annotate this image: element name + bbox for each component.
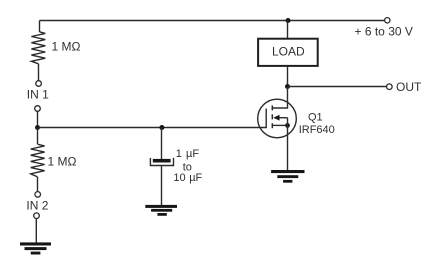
Q1 gate bar xyxy=(265,109,267,129)
wire: gate rail from divider to MOSFET xyxy=(38,127,267,129)
Q1 source connection xyxy=(272,124,287,126)
wire: source to ground xyxy=(287,118,289,170)
svg-text:10: 10 xyxy=(173,172,185,184)
svg-text:IRF640: IRF640 xyxy=(299,124,335,136)
terminal circle IN1 upper xyxy=(36,81,42,87)
wire: R2 bottom lead xyxy=(37,177,39,192)
ground symbol capacitor xyxy=(145,205,177,216)
wire: capacitor bottom lead xyxy=(161,166,163,206)
wire: IN1 lower circle to gate node xyxy=(37,111,39,127)
wire: down to R2 xyxy=(37,128,39,145)
transistor Q1 body circle xyxy=(258,99,297,138)
terminal circle OUT xyxy=(387,84,393,90)
junction: rail to LOAD branch xyxy=(286,18,291,23)
svg-text:1: 1 xyxy=(176,148,182,160)
ground symbol IN2 xyxy=(20,242,51,254)
wire: capacitor top lead xyxy=(161,128,163,160)
capacitor C1 bottom cup plate xyxy=(150,158,173,166)
capacitor C1 top plate xyxy=(153,159,171,163)
svg-text:IN 2: IN 2 xyxy=(26,199,48,213)
wire: LOAD to drain node xyxy=(287,66,289,87)
svg-text:IN 1: IN 1 xyxy=(27,88,49,102)
svg-text:+ 6 to 30 V: + 6 to 30 V xyxy=(355,25,413,39)
resistor R1 xyxy=(31,32,45,64)
wire: top supply rail xyxy=(40,20,388,22)
junction: drain / OUT node xyxy=(285,84,290,89)
wire: rail to LOAD xyxy=(287,21,289,40)
svg-text:Q1: Q1 xyxy=(308,112,323,124)
svg-text:1 MΩ: 1 MΩ xyxy=(48,154,77,168)
svg-text:LOAD: LOAD xyxy=(272,45,305,59)
load box xyxy=(258,39,318,66)
svg-text:OUT: OUT xyxy=(396,80,422,94)
wire: IN2 to ground xyxy=(35,219,37,243)
junction: capacitor node xyxy=(159,125,164,130)
terminal circle IN1 lower xyxy=(35,106,41,112)
svg-text:µF: µF xyxy=(186,148,199,160)
terminal circle IN2 upper xyxy=(35,192,41,198)
resistor R2 xyxy=(31,144,45,177)
Q1 drain connection xyxy=(272,87,287,109)
junction: gate node left xyxy=(35,125,40,130)
wire: R1 bottom lead xyxy=(38,64,40,81)
junction: source-body dot xyxy=(285,123,290,128)
Q1 channel segment middle xyxy=(271,114,273,119)
Q1 channel segment bottom xyxy=(271,123,273,128)
terminal circle IN2 lower xyxy=(34,213,40,219)
Q1 body connection with arrow xyxy=(279,117,288,119)
ground symbol MOSFET xyxy=(271,170,304,183)
svg-text:µF: µF xyxy=(189,172,202,184)
wire: OUT lead xyxy=(288,86,387,88)
Q1 channel segment top xyxy=(271,105,273,110)
svg-text:1 MΩ: 1 MΩ xyxy=(52,39,81,53)
terminal circle +6-30V xyxy=(385,18,390,23)
wire: left drop from rail to R1 xyxy=(39,21,41,33)
